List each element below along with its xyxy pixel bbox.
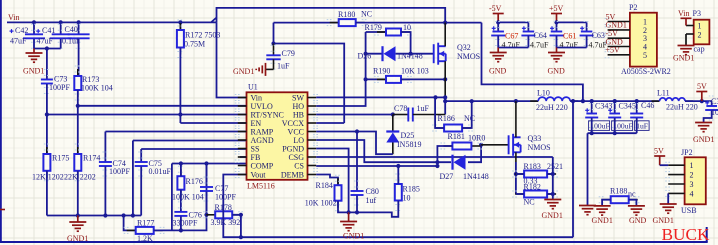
svg-text:Q33: Q33 bbox=[528, 134, 542, 143]
svg-text:U1: U1 bbox=[248, 83, 258, 92]
svg-text:22uH 220: 22uH 220 bbox=[536, 103, 568, 112]
wire C344 gnd bbox=[704, 111, 712, 123]
svg-text:LM5116: LM5116 bbox=[247, 182, 275, 191]
inductor L10 bbox=[530, 97, 578, 101]
svg-text:10R0: 10R0 bbox=[468, 134, 485, 143]
pin stub left bbox=[238, 97, 247, 99]
svg-text:D26: D26 bbox=[358, 52, 372, 61]
wire PGND drop bbox=[316, 149, 348, 213]
pin stub right bbox=[308, 165, 317, 167]
wire bbox=[140, 167, 142, 216]
wire bbox=[206, 164, 208, 188]
wire -5V rail bbox=[498, 21, 528, 23]
svg-text:1N4148: 1N4148 bbox=[397, 52, 423, 61]
wire EN bbox=[180, 122, 246, 124]
svg-text:4: 4 bbox=[690, 189, 694, 198]
junction bbox=[554, 20, 558, 24]
pin C78 right bbox=[413, 114, 445, 116]
svg-text:C64: C64 bbox=[534, 31, 547, 40]
svg-text:2521: 2521 bbox=[547, 162, 563, 171]
ground GND1 bbox=[340, 222, 357, 231]
svg-text:R185: R185 bbox=[403, 185, 420, 194]
wire bbox=[527, 22, 529, 31]
junction bbox=[443, 77, 447, 81]
pin Q33 source bbox=[515, 152, 517, 162]
svg-text:cap: cap bbox=[694, 45, 705, 54]
svg-text:C63: C63 bbox=[592, 31, 605, 40]
svg-text:GND1: GND1 bbox=[673, 54, 694, 63]
wire VCC rail to VCCX bbox=[274, 44, 345, 124]
svg-text:GND1: GND1 bbox=[343, 232, 364, 241]
resistor R172 bbox=[177, 23, 184, 55]
wire LO jog bbox=[316, 140, 451, 162]
ground GND1 lead bbox=[33, 49, 35, 54]
svg-text:GND1: GND1 bbox=[233, 67, 254, 76]
pin D25 anode bbox=[392, 143, 394, 155]
wire R178 right bbox=[232, 215, 241, 237]
svg-text:1N4148: 1N4148 bbox=[463, 172, 489, 181]
wire 5V node bbox=[685, 100, 712, 102]
wire bbox=[104, 167, 106, 216]
junction bbox=[443, 99, 447, 103]
svg-text:12K 1202: 12K 1202 bbox=[32, 173, 64, 182]
svg-text:JP2: JP2 bbox=[681, 148, 693, 157]
capacitor C46 bbox=[630, 114, 643, 118]
svg-text:C46: C46 bbox=[641, 101, 654, 110]
pin stub right bbox=[308, 122, 317, 124]
wire CSG riser to gnd bbox=[552, 157, 554, 200]
svg-text:R190: R190 bbox=[373, 67, 390, 76]
svg-text:0.1uf: 0.1uf bbox=[62, 37, 79, 46]
wire gnd riser bbox=[587, 133, 589, 205]
svg-text:GND1: GND1 bbox=[542, 211, 563, 220]
wire bbox=[180, 190, 182, 212]
wire R177 right riser bbox=[154, 164, 207, 231]
junction bbox=[479, 143, 483, 147]
connector P2 bbox=[630, 13, 657, 67]
wire bbox=[206, 192, 208, 215]
svg-text:47uF: 47uF bbox=[10, 37, 27, 46]
wire R181 left riser bbox=[437, 146, 452, 166]
svg-text:GND1: GND1 bbox=[23, 67, 44, 76]
svg-text:Vin: Vin bbox=[678, 9, 690, 18]
svg-text:2: 2 bbox=[698, 31, 702, 40]
capacitor C63 bbox=[580, 32, 594, 36]
wire right loop bbox=[482, 23, 583, 102]
capacitor C79 bbox=[266, 55, 280, 59]
junction bbox=[590, 99, 594, 103]
ground lead bbox=[348, 212, 350, 221]
junction bbox=[613, 99, 617, 103]
svg-text:100K 104: 100K 104 bbox=[172, 193, 204, 202]
junction bbox=[76, 104, 80, 108]
pin stub right bbox=[308, 114, 317, 116]
wire CS bbox=[316, 165, 437, 167]
capacitor C41 bbox=[50, 34, 72, 38]
wire HO riser bbox=[316, 32, 365, 106]
wire SW to L10 bbox=[445, 100, 516, 102]
junction bbox=[355, 210, 359, 214]
svg-text:100PF: 100PF bbox=[215, 193, 236, 202]
junction bbox=[551, 192, 555, 196]
wire bbox=[179, 22, 181, 30]
svg-text:22uH 220: 22uH 220 bbox=[666, 103, 698, 112]
capacitor C76 bbox=[174, 212, 187, 216]
capacitor C74 bbox=[99, 162, 112, 166]
transistor Q33 NMOS bbox=[509, 134, 521, 156]
pin stub 5 bbox=[608, 54, 630, 56]
pin stub right bbox=[308, 156, 317, 158]
pin stub left bbox=[238, 105, 247, 107]
svg-text:USB: USB bbox=[681, 206, 697, 215]
svg-text:D27: D27 bbox=[440, 172, 454, 181]
svg-text:0.75M: 0.75M bbox=[184, 40, 205, 49]
svg-text:R184: R184 bbox=[316, 181, 333, 190]
svg-text:22K 2202: 22K 2202 bbox=[64, 173, 96, 182]
pin D25 cathode bbox=[392, 115, 394, 132]
svg-text:DEMB: DEMB bbox=[281, 171, 304, 180]
pin stub 4 bbox=[668, 192, 684, 194]
junction bbox=[32, 20, 36, 24]
wire bbox=[77, 90, 79, 106]
svg-text:R172 7503: R172 7503 bbox=[185, 31, 220, 40]
wire bbox=[614, 118, 616, 133]
wire bbox=[547, 193, 553, 195]
wire VCCX bbox=[316, 122, 344, 124]
wire bbox=[46, 84, 48, 115]
wire AGND to ground bbox=[132, 141, 134, 216]
wire bbox=[366, 31, 386, 33]
svg-text:C345: C345 bbox=[619, 102, 636, 111]
pin C79 bottom bbox=[273, 59, 275, 69]
wire R186 right riser bbox=[462, 101, 472, 128]
svg-text:L11: L11 bbox=[657, 89, 670, 98]
svg-text:1: 1 bbox=[698, 22, 702, 31]
junction bbox=[77, 20, 81, 24]
junction bbox=[435, 160, 439, 164]
resistor R173 bbox=[74, 69, 81, 97]
diode D25 bbox=[386, 132, 399, 143]
svg-text:BUCK: BUCK bbox=[662, 225, 711, 244]
ground GND bbox=[628, 206, 645, 215]
junction bbox=[45, 46, 49, 50]
junction bbox=[239, 235, 243, 239]
svg-text:10K 1002: 10K 1002 bbox=[305, 199, 337, 208]
svg-text:D25: D25 bbox=[401, 131, 415, 140]
junction bbox=[396, 164, 400, 168]
wire bbox=[77, 171, 79, 216]
wire SW riser bbox=[444, 97, 446, 114]
wire bbox=[497, 22, 499, 31]
svg-text:C61: C61 bbox=[563, 32, 576, 41]
wire SS bbox=[141, 148, 246, 150]
svg-text:C42: C42 bbox=[15, 26, 28, 35]
wire Q33 source node bbox=[515, 162, 517, 194]
junction bbox=[496, 20, 500, 24]
wire DEMB to R184 bbox=[316, 175, 338, 186]
wire ground rail bbox=[47, 215, 141, 217]
wire bbox=[356, 196, 358, 213]
wire bbox=[60, 22, 62, 34]
resistor R175 bbox=[43, 147, 50, 178]
svg-text:1uf: 1uf bbox=[366, 196, 377, 205]
pin stub right bbox=[308, 131, 317, 133]
svg-text:L10: L10 bbox=[537, 89, 550, 98]
wire R188 right bbox=[629, 200, 637, 206]
wire feedback riser bbox=[572, 101, 574, 237]
wire bbox=[636, 101, 638, 113]
wire Vin top jumper bbox=[217, 8, 446, 23]
wire R185 top bbox=[397, 166, 399, 184]
wire bbox=[104, 132, 106, 163]
svg-text:100PF: 100PF bbox=[49, 83, 70, 92]
svg-text:GND1: GND1 bbox=[653, 216, 674, 225]
wire R185 bottom jog bbox=[357, 201, 398, 217]
wire bbox=[557, 47, 587, 49]
wire bbox=[570, 100, 583, 102]
capacitor C73 bbox=[41, 80, 53, 84]
svg-text:1uF: 1uF bbox=[277, 62, 290, 71]
wire UVLO bbox=[78, 105, 247, 107]
junction bbox=[355, 129, 359, 133]
svg-text:100PF: 100PF bbox=[109, 167, 130, 176]
wire bbox=[636, 118, 638, 133]
svg-text:GND: GND bbox=[548, 67, 566, 76]
pin lead to ground bbox=[685, 34, 687, 46]
junction bbox=[435, 164, 439, 168]
junction bbox=[178, 112, 182, 116]
svg-text:4.7uF: 4.7uF bbox=[530, 41, 549, 50]
transistor Q32 NMOS bbox=[434, 43, 446, 65]
capacitor C64 bbox=[521, 32, 535, 36]
junction bbox=[581, 99, 585, 103]
capacitor C61 bbox=[550, 32, 564, 36]
svg-text:R175: R175 bbox=[52, 154, 69, 163]
pin stub right bbox=[308, 139, 317, 141]
pin stub 2 bbox=[668, 174, 684, 176]
junction bbox=[271, 41, 275, 45]
pin stub left bbox=[238, 156, 247, 158]
resistor R178 bbox=[206, 211, 241, 218]
junction bbox=[76, 213, 80, 217]
capacitor C344 bbox=[705, 106, 718, 110]
junction bbox=[443, 95, 447, 99]
wire R180 right bbox=[356, 22, 482, 24]
wire bbox=[46, 49, 48, 80]
wire 5V to JP2 bbox=[660, 164, 669, 166]
ground GND bbox=[490, 53, 507, 62]
junction bbox=[514, 99, 518, 103]
capacitor C67 bbox=[491, 32, 505, 36]
wire CSG bbox=[316, 156, 553, 158]
capacitor C80 bbox=[351, 191, 364, 195]
svg-text:COMP: COMP bbox=[251, 162, 274, 171]
capacitor C77 bbox=[200, 187, 213, 191]
pin stub 1 bbox=[608, 21, 630, 23]
wire bbox=[516, 100, 538, 102]
wire bbox=[46, 171, 48, 216]
wire R186 left riser bbox=[435, 97, 444, 128]
ground GND1 bbox=[544, 200, 561, 209]
svg-text:NMOS: NMOS bbox=[457, 52, 480, 61]
wire C79 riser bbox=[273, 23, 275, 44]
power port +5V bbox=[551, 14, 562, 23]
svg-text:C343: C343 bbox=[595, 102, 612, 111]
ground GND1 bbox=[660, 204, 677, 213]
wire Vout feedback bbox=[223, 175, 573, 238]
pin stub left bbox=[238, 165, 247, 167]
svg-text:1.2K: 1.2K bbox=[137, 234, 153, 243]
wire bbox=[556, 36, 558, 48]
pin Q32 drain bbox=[444, 23, 446, 47]
junction bbox=[590, 131, 594, 135]
resistor R183 bbox=[515, 171, 556, 178]
svg-text:100uF: 100uF bbox=[590, 122, 609, 131]
ground GND bbox=[548, 53, 565, 62]
svg-text:C77: C77 bbox=[215, 184, 228, 193]
wire VCC to R180 bbox=[274, 22, 339, 24]
junction bbox=[59, 20, 63, 24]
capacitor C40 bbox=[68, 34, 90, 38]
junction bbox=[700, 99, 704, 103]
svg-text:R186: R186 bbox=[438, 114, 455, 123]
svg-text:GND: GND bbox=[629, 216, 647, 225]
svg-text:10: 10 bbox=[403, 194, 411, 203]
resistor R190 bbox=[377, 76, 410, 83]
pin stub left bbox=[238, 114, 247, 116]
sheet ruler mark bbox=[0, 209, 5, 211]
junction bbox=[179, 161, 183, 165]
wire D26 to gate bbox=[396, 53, 434, 55]
wire cap gnd rail bbox=[588, 132, 637, 134]
pin stub right bbox=[308, 97, 317, 99]
svg-text:R179: R179 bbox=[365, 23, 382, 32]
svg-text:100K 104: 100K 104 bbox=[81, 84, 113, 93]
wire bbox=[586, 36, 588, 48]
wire bbox=[46, 115, 48, 155]
op-amp U1 LM5116 bbox=[247, 92, 308, 180]
wire bbox=[527, 36, 529, 48]
resistor R184 bbox=[335, 178, 342, 208]
wire bbox=[614, 101, 616, 113]
wire JP2 gnd bbox=[667, 193, 669, 204]
svg-text:GND: GND bbox=[489, 67, 507, 76]
svg-text:+5V: +5V bbox=[549, 4, 564, 13]
wire C40 to R173 bbox=[78, 39, 80, 76]
pin stub left bbox=[238, 139, 247, 141]
svg-text:2: 2 bbox=[690, 171, 694, 180]
svg-text:NMOS: NMOS bbox=[528, 143, 551, 152]
wire RT/SYNC bbox=[47, 114, 247, 116]
junction bbox=[239, 213, 243, 217]
wire R177 left bbox=[124, 216, 136, 231]
svg-text:0.01uF: 0.01uF bbox=[149, 167, 172, 176]
resistor R188 bbox=[602, 196, 638, 203]
ground lead bbox=[77, 216, 79, 223]
pin Q33 drain bbox=[515, 101, 517, 137]
pin stub left bbox=[238, 148, 247, 150]
ground GND1 bbox=[69, 222, 86, 231]
wire +5V rail bbox=[557, 21, 587, 23]
junction bbox=[131, 213, 135, 217]
wire D26 left bbox=[366, 53, 382, 55]
wire bbox=[591, 118, 593, 133]
junction bbox=[179, 228, 183, 232]
capacitor C343 bbox=[585, 114, 598, 118]
svg-text:C67: C67 bbox=[505, 32, 518, 41]
ground GND1 bbox=[678, 46, 695, 55]
wire R179 right bbox=[401, 32, 411, 54]
capacitor C75 bbox=[135, 162, 148, 166]
pin lead bbox=[266, 68, 274, 70]
wire Vin rail bbox=[7, 21, 217, 23]
svg-text:C3: C3 bbox=[711, 97, 718, 106]
wire bbox=[33, 39, 35, 49]
junction bbox=[571, 99, 575, 103]
pin stub 1 bbox=[668, 164, 684, 166]
svg-text:NC: NC bbox=[361, 10, 372, 19]
wire bbox=[33, 22, 35, 34]
wire FB stub bbox=[240, 156, 247, 158]
svg-text:R174: R174 bbox=[83, 154, 100, 163]
junction bbox=[45, 112, 49, 116]
wire C80 riser bbox=[356, 132, 358, 192]
svg-text:+5V: +5V bbox=[606, 46, 621, 55]
junction bbox=[433, 95, 437, 99]
pin stub 2 bbox=[608, 29, 630, 31]
resistor R185 bbox=[395, 177, 402, 208]
wire R190 right bbox=[401, 78, 445, 80]
svg-text:1uF: 1uF bbox=[417, 104, 430, 113]
junction bbox=[122, 213, 126, 217]
pin Q33 gate bbox=[481, 144, 509, 146]
capacitor C345 bbox=[608, 114, 621, 118]
ground GND1 bbox=[26, 53, 43, 62]
svg-text:C79: C79 bbox=[282, 49, 295, 58]
ground GND1 bbox=[695, 123, 712, 132]
pin stub 3 bbox=[608, 37, 630, 39]
junction bbox=[409, 52, 413, 56]
pin stub 2 bbox=[686, 33, 694, 35]
pin stub left bbox=[238, 131, 247, 133]
wire bbox=[591, 101, 593, 113]
wire bbox=[497, 36, 499, 48]
junction bbox=[364, 77, 368, 81]
wire VCC jog bbox=[316, 132, 393, 155]
pin C79 top bbox=[273, 44, 275, 56]
wire bbox=[516, 193, 524, 195]
svg-text:GND1: GND1 bbox=[67, 234, 88, 243]
junction bbox=[443, 21, 447, 25]
svg-text:GND1: GND1 bbox=[693, 135, 714, 144]
svg-text:R180: R180 bbox=[338, 10, 355, 19]
wire Vin to IC bbox=[217, 22, 247, 97]
junction bbox=[204, 213, 208, 217]
wire bbox=[366, 78, 386, 80]
svg-text:P3: P3 bbox=[693, 9, 701, 18]
svg-text:Q32: Q32 bbox=[457, 43, 471, 52]
pin stub left bbox=[238, 122, 247, 124]
wire bbox=[77, 106, 79, 154]
power port 5V bbox=[654, 156, 665, 165]
wire bbox=[60, 39, 62, 49]
junction bbox=[470, 99, 474, 103]
wire comp left riser bbox=[171, 164, 173, 231]
svg-text:A0505S-2WR2: A0505S-2WR2 bbox=[621, 67, 671, 76]
resistor R179 bbox=[377, 29, 410, 36]
power port 5V bbox=[696, 92, 707, 102]
svg-text:NC: NC bbox=[464, 114, 475, 123]
